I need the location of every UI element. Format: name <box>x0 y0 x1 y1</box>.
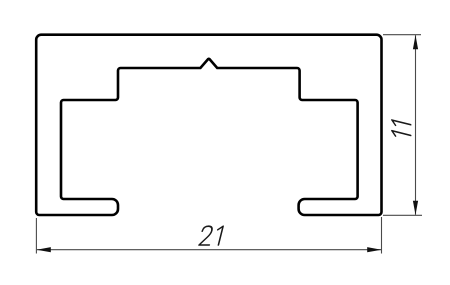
extension line bottom-right <box>381 217 383 254</box>
arrow right of dim 21 <box>367 247 381 252</box>
dimension line 11 <box>415 35 417 215</box>
arrow top of dim 11 <box>413 35 418 49</box>
extension line bottom-left <box>35 218 37 254</box>
arrow bottom of dim 11 <box>413 201 418 215</box>
aluminum profile cross-section outline <box>36 35 381 215</box>
extension line right-bottom <box>383 214 422 216</box>
extension line top-right <box>383 34 421 36</box>
label 21 <box>199 226 223 245</box>
arrow left of dim 21 <box>37 247 51 252</box>
label 11 <box>392 120 411 140</box>
dimension line 21 <box>37 249 381 251</box>
